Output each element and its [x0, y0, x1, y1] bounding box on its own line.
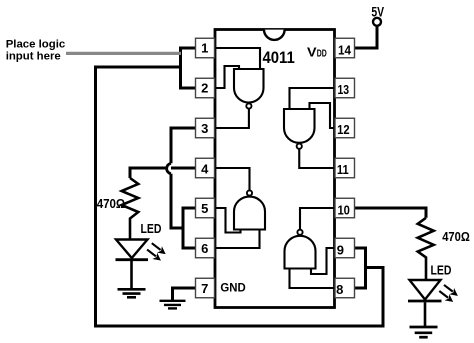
svg-text:5V: 5V [371, 5, 384, 20]
svg-text:GND: GND [220, 282, 245, 295]
svg-text:4: 4 [201, 161, 209, 176]
svg-text:470Ω: 470Ω [97, 196, 126, 211]
svg-text:13: 13 [338, 82, 350, 97]
svg-text:input here: input here [6, 51, 61, 63]
svg-text:9: 9 [337, 242, 344, 257]
svg-text:6: 6 [201, 241, 208, 256]
svg-text:470Ω: 470Ω [442, 229, 470, 244]
svg-text:5: 5 [201, 201, 208, 216]
svg-text:V: V [307, 44, 317, 59]
svg-text:4011: 4011 [263, 49, 295, 67]
svg-text:1: 1 [201, 41, 208, 56]
svg-text:14: 14 [338, 43, 352, 58]
svg-text:7: 7 [201, 281, 208, 296]
svg-text:11: 11 [337, 162, 349, 177]
svg-text:LED: LED [431, 262, 452, 277]
svg-text:10: 10 [337, 203, 350, 218]
svg-text:LED: LED [141, 221, 162, 236]
svg-text:12: 12 [337, 122, 350, 137]
svg-text:Place logic: Place logic [6, 39, 66, 51]
svg-text:2: 2 [201, 81, 208, 96]
svg-text:3: 3 [201, 121, 208, 136]
svg-text:8: 8 [336, 282, 343, 297]
svg-text:DD: DD [317, 48, 327, 59]
